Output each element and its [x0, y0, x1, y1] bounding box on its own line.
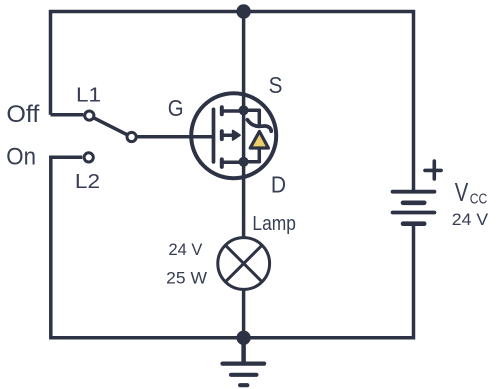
svg-text:D: D — [271, 172, 286, 198]
svg-text:25 W: 25 W — [166, 269, 207, 288]
svg-text:24 V: 24 V — [169, 240, 204, 259]
svg-text:S: S — [269, 72, 283, 98]
svg-text:L1: L1 — [76, 83, 101, 106]
svg-text:CC: CC — [470, 191, 488, 208]
svg-text:On: On — [6, 144, 36, 171]
svg-text:Off: Off — [6, 101, 39, 128]
svg-text:24 V: 24 V — [452, 210, 489, 229]
svg-text:V: V — [455, 177, 469, 207]
svg-text:Lamp: Lamp — [252, 213, 296, 235]
svg-text:L2: L2 — [75, 170, 100, 193]
svg-text:G: G — [168, 95, 184, 121]
